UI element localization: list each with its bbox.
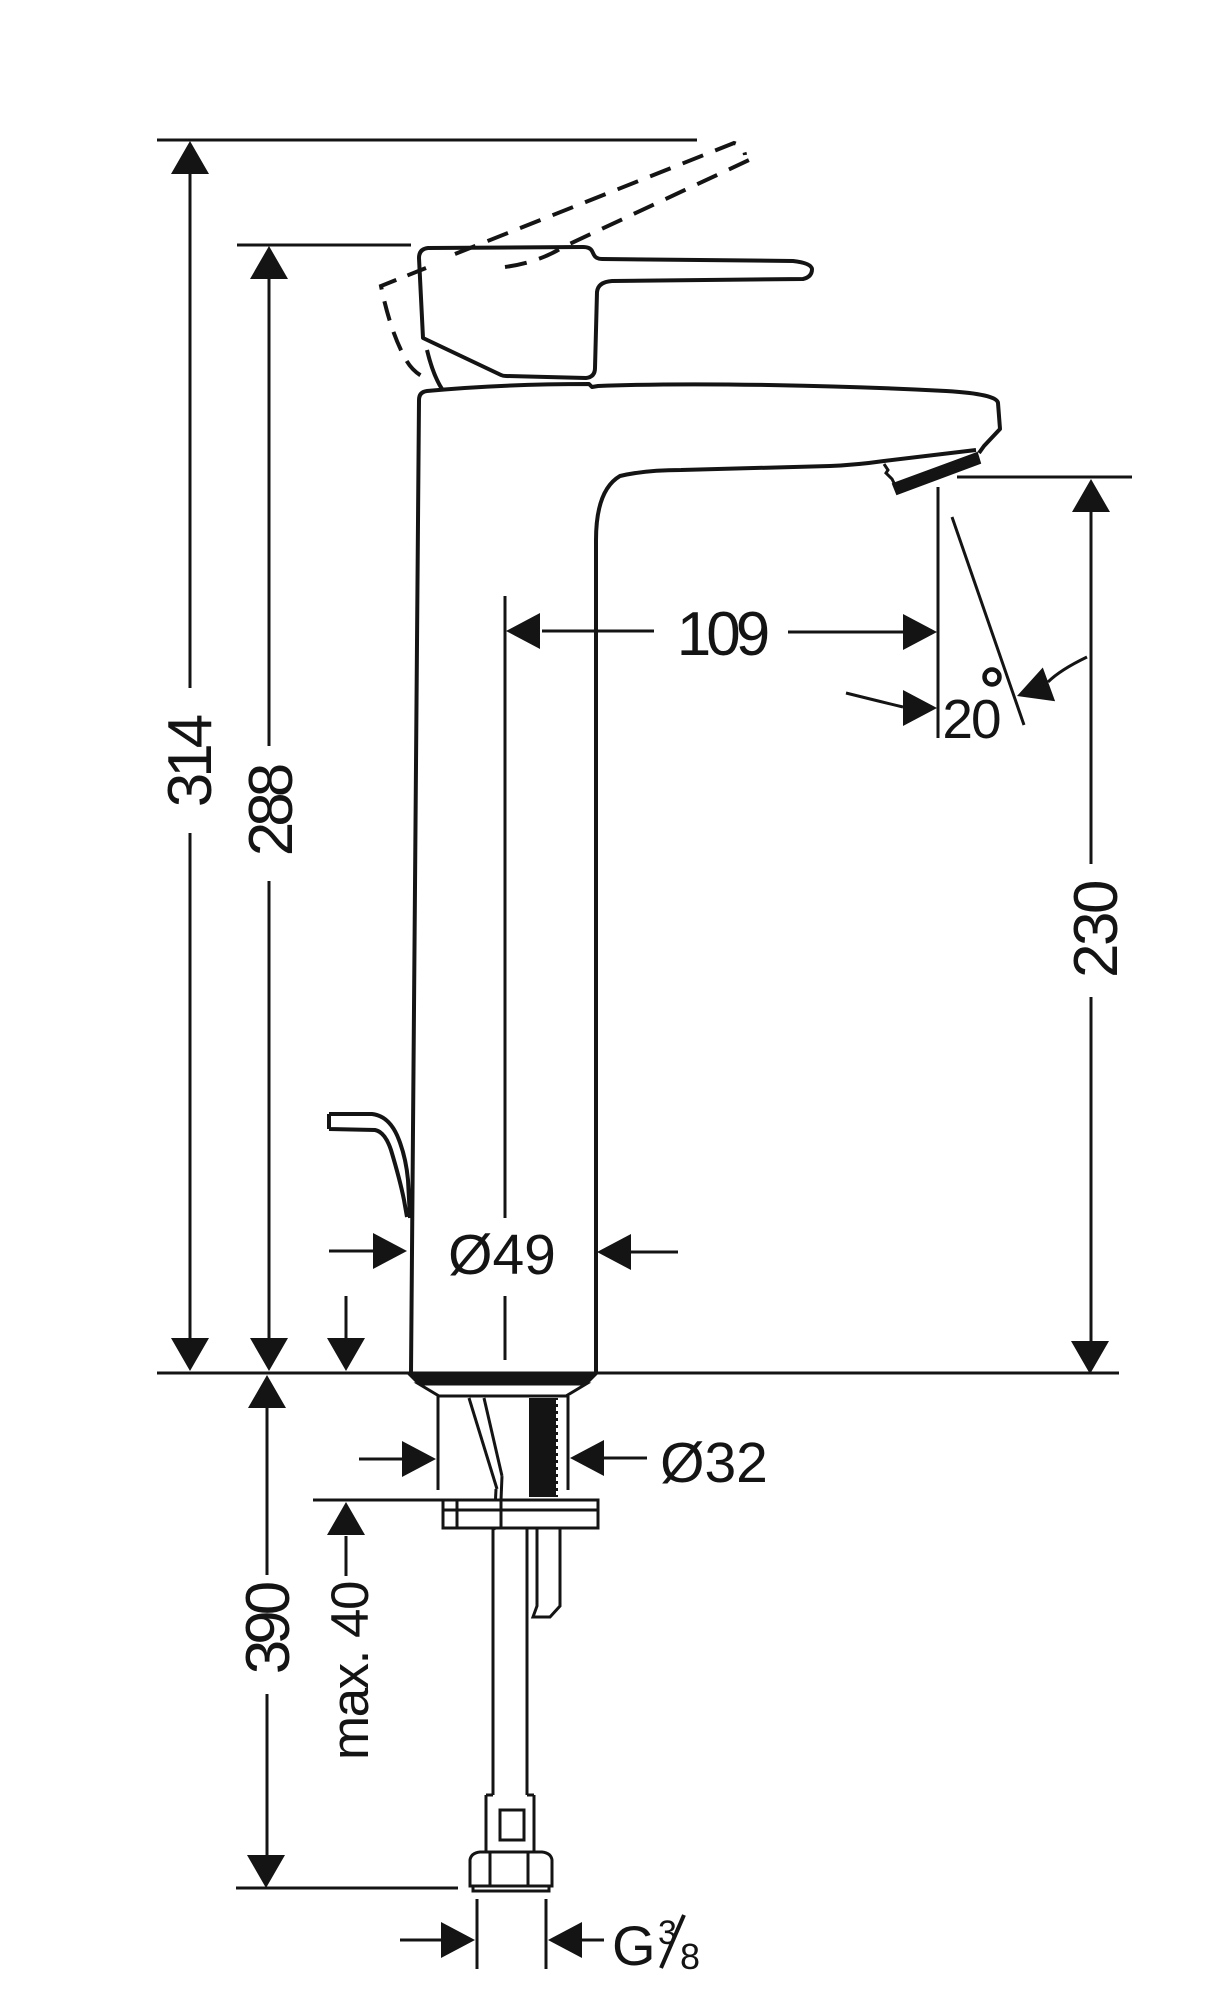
lever dashed lower edge (raised position)	[505, 160, 749, 267]
cartridge dome arc	[427, 350, 442, 389]
dimension 288 arrow up	[250, 246, 288, 279]
dimension 390 arrow up (below counter)	[248, 1375, 286, 1408]
spout body outer outline	[411, 384, 1000, 1373]
svg-text:109: 109	[677, 600, 768, 669]
hex stud below washer	[533, 1528, 560, 1617]
G3/8 extension lines	[476, 1899, 479, 1969]
svg-text:314: 314	[156, 715, 225, 807]
spout underside and column right edge	[596, 450, 976, 1373]
reference line hose end	[236, 1887, 458, 1890]
svg-text:G: G	[612, 1914, 656, 1977]
threaded stud (black)	[529, 1398, 558, 1497]
hose collar	[486, 1794, 493, 1797]
dimension 288 arrow down	[250, 1338, 288, 1371]
20 degree slant line	[952, 517, 1024, 725]
counter/deck line	[157, 1372, 1119, 1375]
svg-text:max. 40: max. 40	[321, 1582, 380, 1760]
hose nut	[470, 1852, 552, 1886]
dimension D32	[359, 1458, 403, 1461]
20 degree leader right with arrow	[1048, 657, 1087, 682]
pop-up rod inside shank	[469, 1398, 497, 1489]
shank left edge	[437, 1396, 440, 1490]
base ribbed band (black)	[406, 1373, 599, 1384]
lever dashed body outline (raised position)	[381, 268, 428, 379]
base lower collar	[419, 1384, 586, 1396]
supply tube	[492, 1528, 495, 1795]
reference line at handle top (288)	[237, 244, 411, 247]
dimension D49	[329, 1250, 374, 1253]
handle body	[419, 247, 812, 378]
reference line spout outlet height (230 top)	[957, 476, 1132, 479]
dimension 109	[506, 613, 540, 649]
extension line spout outlet	[937, 487, 940, 738]
aerator outlet left notched edge	[884, 464, 896, 487]
svg-text:Ø49: Ø49	[448, 1223, 556, 1287]
reference line washer top	[313, 1499, 443, 1502]
dimension 288 line	[268, 276, 271, 746]
svg-text:8: 8	[680, 1936, 700, 1977]
pop-up rod handle	[329, 1114, 410, 1218]
svg-text:Ø32: Ø32	[660, 1431, 768, 1495]
dimension 230 arrow up	[1072, 479, 1110, 512]
svg-text:288: 288	[237, 765, 306, 856]
dimension 314 arrow down	[171, 1338, 209, 1371]
svg-text:390: 390	[234, 1582, 303, 1674]
mounting washer plate	[443, 1500, 598, 1528]
dimension 390 arrow down	[247, 1855, 285, 1888]
degree symbol	[985, 670, 1000, 685]
dimension 314 line	[189, 170, 192, 688]
lever dashed upper edge (raised position)	[455, 143, 745, 254]
dimension max.40 line upper	[345, 1296, 348, 1340]
dimension 314 arrow up	[171, 141, 209, 174]
aerator face (black band)	[893, 453, 980, 494]
dimension max.40 arrow down	[327, 1338, 365, 1371]
dimension 230 line	[1090, 511, 1093, 864]
dimension 390 line	[266, 1404, 269, 1575]
shank right edge	[567, 1396, 570, 1490]
top reference line (overall height 314)	[157, 139, 697, 142]
svg-text:20: 20	[942, 688, 1000, 750]
dimension max.40 arrow up	[327, 1502, 365, 1535]
dimension 230 arrow down	[1071, 1341, 1109, 1374]
20 degree leader left with arrow	[846, 693, 903, 707]
svg-text:230: 230	[1062, 881, 1131, 978]
dimension G3/8	[400, 1939, 442, 1942]
centerline of column	[504, 596, 507, 1218]
